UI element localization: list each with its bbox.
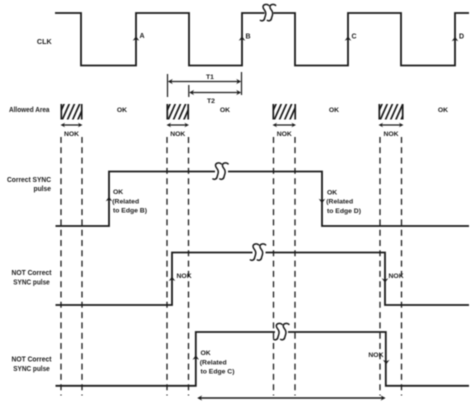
dashed guide line 6 at x=295 bbox=[294, 137, 296, 396]
svg-text:to Edge B): to Edge B) bbox=[113, 208, 147, 215]
break symbol on NOT correct SYNC 1 high segment bbox=[250, 244, 265, 260]
svg-text:OK: OK bbox=[329, 107, 339, 114]
arrow NOK at rising edge of NOT correct SYNC 1 bbox=[169, 277, 176, 281]
label OK area 2 bbox=[220, 107, 230, 114]
extension tick at left of T2 bbox=[188, 85, 190, 97]
svg-text:(Related: (Related bbox=[326, 199, 353, 206]
hatched NOK area 4 bbox=[375, 103, 409, 122]
svg-text:A: A bbox=[140, 33, 145, 40]
svg-text:pulse: pulse bbox=[34, 184, 52, 193]
dashed guide line 1 at x=61 bbox=[60, 137, 62, 396]
extension tick at left of T1 bbox=[167, 74, 169, 97]
arrow OK at rising edge of correct SYNC bbox=[106, 197, 113, 201]
svg-text:NOT Correct: NOT Correct bbox=[12, 268, 52, 277]
svg-text:(Related: (Related bbox=[200, 359, 227, 366]
edge arrow A on clock rising edge bbox=[133, 33, 145, 41]
dashed guide line 3 at x=167 bbox=[166, 137, 168, 396]
svg-text:to Edge C): to Edge C) bbox=[201, 369, 235, 376]
dashed guide line 2 at x=82 bbox=[81, 137, 83, 396]
svg-text:NOT Correct: NOT Correct bbox=[12, 355, 52, 364]
hatched NOK area 3 bbox=[269, 103, 303, 122]
break symbol on NOT correct SYNC 2 high segment bbox=[274, 323, 289, 339]
svg-text:Allowed Area: Allowed Area bbox=[9, 105, 50, 114]
hatched NOK area 1 bbox=[57, 103, 91, 122]
break symbol on correct SYNC high segment bbox=[213, 163, 228, 179]
svg-text:(Related: (Related bbox=[112, 198, 139, 205]
dimension arrow pulse width at bottom bbox=[197, 395, 385, 400]
svg-text:OK: OK bbox=[438, 107, 448, 114]
label Correct SYNC pulse bbox=[7, 175, 52, 193]
label NOK at falling edge row5 bbox=[389, 273, 404, 280]
label NOK 4 bbox=[383, 131, 398, 138]
arrow NOK at falling edge of NOT correct SYNC 1 bbox=[382, 278, 389, 282]
extension tick at right of T1/T2 bbox=[241, 72, 243, 95]
svg-text:NOK: NOK bbox=[389, 273, 404, 280]
arrow NOK at falling edge of NOT correct SYNC 2 bbox=[383, 360, 390, 364]
wire NOT correct SYNC pulse 2 waveform bbox=[56, 332, 470, 386]
label NOT Correct SYNC pulse 1 bbox=[12, 268, 52, 286]
dashed guide line 4 at x=188.5 bbox=[188, 137, 190, 396]
edge arrow B on clock rising edge bbox=[239, 34, 251, 41]
svg-text:SYNC pulse: SYNC pulse bbox=[13, 277, 50, 286]
svg-text:to Edge D): to Edge D) bbox=[327, 208, 361, 215]
label OK Related to Edge D bbox=[326, 189, 361, 215]
NOK width arrow 4 bbox=[379, 123, 404, 128]
wire clock waveform CLK bbox=[55, 13, 469, 66]
dashed guide line 8 at x=401.5 bbox=[401, 137, 403, 396]
wire NOT correct SYNC pulse 1 waveform bbox=[56, 253, 470, 306]
NOK width arrow 2 bbox=[167, 123, 190, 128]
svg-text:NOK: NOK bbox=[170, 131, 185, 138]
svg-text:B: B bbox=[246, 34, 251, 41]
label NOK at falling edge row6 bbox=[368, 352, 383, 359]
svg-text:C: C bbox=[352, 34, 357, 41]
svg-text:OK: OK bbox=[220, 107, 230, 114]
svg-text:OK: OK bbox=[113, 189, 123, 196]
svg-text:Correct SYNC: Correct SYNC bbox=[7, 175, 52, 184]
svg-text:OK: OK bbox=[117, 107, 127, 114]
dimension arrow T1 bbox=[168, 79, 241, 84]
svg-text:NOK: NOK bbox=[368, 352, 383, 359]
NOK width arrow 1 bbox=[61, 123, 83, 128]
break symbol on clock high segment bbox=[260, 4, 275, 20]
svg-text:T2: T2 bbox=[207, 98, 215, 105]
svg-text:OK: OK bbox=[327, 189, 337, 196]
label T2 bbox=[207, 98, 215, 105]
label NOK 1 bbox=[64, 131, 79, 138]
label OK Related to Edge B bbox=[112, 189, 147, 215]
arrow OK at rising edge of NOT correct SYNC 2 bbox=[193, 355, 200, 359]
svg-text:OK: OK bbox=[201, 350, 211, 357]
edge arrow D on clock rising edge bbox=[452, 34, 464, 42]
svg-text:T1: T1 bbox=[206, 74, 214, 81]
wire correct SYNC pulse waveform bbox=[56, 172, 470, 227]
label OK area 3 bbox=[329, 107, 339, 114]
NOK width arrow 3 bbox=[273, 123, 297, 128]
label NOK 2 bbox=[170, 131, 185, 138]
svg-text:NOK: NOK bbox=[64, 131, 79, 138]
label Allowed Area bbox=[9, 105, 50, 114]
label NOK 3 bbox=[277, 131, 292, 138]
hatched NOK area 2 bbox=[163, 103, 197, 122]
label NOT Correct SYNC pulse 2 bbox=[12, 355, 52, 374]
svg-text:D: D bbox=[459, 34, 464, 41]
arrow OK at falling edge of correct SYNC bbox=[319, 199, 326, 203]
label CLK bbox=[37, 37, 53, 46]
dimension arrow T2 bbox=[189, 90, 241, 95]
label NOK at rising edge row5 bbox=[177, 273, 192, 280]
dashed guide line 5 at x=273.5 bbox=[273, 137, 275, 396]
label OK area 4 bbox=[438, 107, 448, 114]
label OK Related to Edge C bbox=[200, 350, 235, 376]
dashed guide line 7 at x=380 bbox=[379, 137, 381, 396]
svg-text:NOK: NOK bbox=[177, 273, 192, 280]
svg-text:NOK: NOK bbox=[383, 131, 398, 138]
svg-text:NOK: NOK bbox=[277, 131, 292, 138]
svg-text:SYNC pulse: SYNC pulse bbox=[13, 364, 50, 373]
label OK area 1 bbox=[117, 107, 127, 114]
svg-text:CLK: CLK bbox=[37, 37, 53, 46]
label T1 bbox=[206, 74, 214, 81]
edge arrow C on clock rising edge bbox=[345, 34, 357, 41]
